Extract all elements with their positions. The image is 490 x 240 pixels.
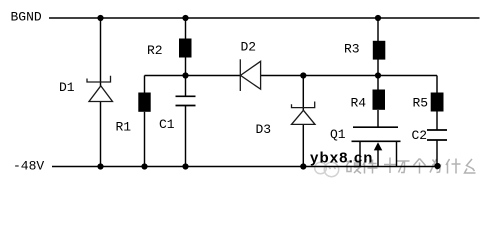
svg-text:-48V: -48V <box>13 159 44 174</box>
svg-text:R5: R5 <box>413 96 429 111</box>
svg-text:R4: R4 <box>351 96 367 111</box>
svg-text:BGND: BGND <box>11 10 42 25</box>
svg-text:D2: D2 <box>241 40 257 55</box>
svg-text:D1: D1 <box>59 80 75 95</box>
svg-text:C2: C2 <box>412 128 428 143</box>
svg-text:R3: R3 <box>344 42 360 57</box>
svg-text:C1: C1 <box>159 117 175 132</box>
svg-text:Q1: Q1 <box>330 127 346 142</box>
svg-text:ybx8.cn: ybx8.cn <box>310 149 374 166</box>
svg-text:R2: R2 <box>147 43 163 58</box>
svg-text:D3: D3 <box>256 122 272 137</box>
svg-text:R1: R1 <box>116 120 132 135</box>
